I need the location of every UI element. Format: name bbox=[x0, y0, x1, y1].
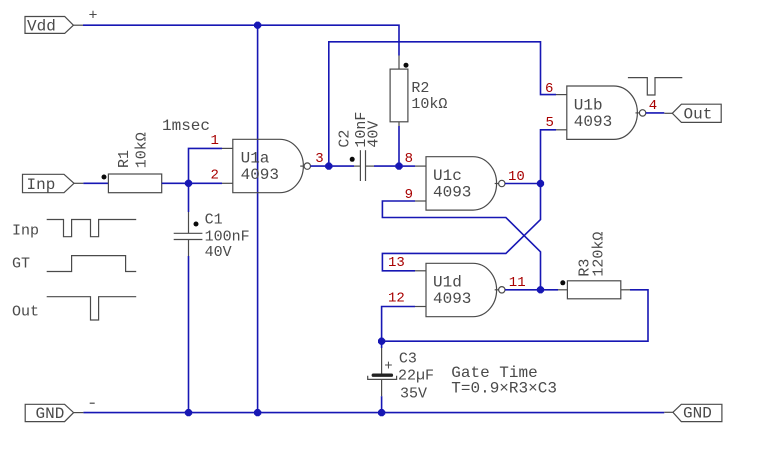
minus sign near GND bbox=[90, 402, 95, 404]
resistor R3 bbox=[558, 232, 630, 299]
svg-text:U1a: U1a bbox=[241, 150, 270, 168]
svg-text:6: 6 bbox=[545, 81, 553, 97]
wire node11 to R3 bbox=[541, 289, 559, 291]
node junction 3 bbox=[325, 163, 332, 170]
resistor R2 bbox=[390, 56, 447, 127]
flag Out bbox=[664, 104, 721, 123]
waveform Inp bbox=[47, 220, 137, 237]
pin-1 dot of R3 bbox=[560, 280, 565, 285]
svg-text:GND: GND bbox=[683, 405, 712, 423]
svg-text:10kΩ: 10kΩ bbox=[411, 96, 447, 113]
pulse icon above Out bbox=[628, 78, 682, 95]
waveform Out bbox=[47, 297, 137, 320]
svg-text:U1b: U1b bbox=[574, 96, 603, 114]
node junction pin12/C3 bbox=[378, 338, 385, 345]
svg-text:GT: GT bbox=[12, 256, 30, 273]
node junction 11 bbox=[537, 286, 544, 293]
wire node down to C1 bbox=[188, 183, 190, 212]
wire GND rail bbox=[83, 412, 664, 414]
op-amp U1b (NAND gate 4093) bbox=[556, 86, 646, 139]
flag GND left bbox=[25, 404, 83, 423]
svg-text:Out: Out bbox=[684, 106, 713, 124]
svg-text:13: 13 bbox=[388, 255, 405, 271]
wire node3 to C2 bbox=[329, 165, 354, 167]
svg-text:1: 1 bbox=[211, 133, 219, 149]
flag Vdd bbox=[25, 17, 83, 36]
wire U1d pin12 bbox=[382, 307, 415, 342]
svg-text:22µF: 22µF bbox=[398, 368, 434, 385]
svg-text:Inp: Inp bbox=[12, 223, 39, 240]
resistor R1 bbox=[108, 132, 161, 192]
svg-text:U1d: U1d bbox=[433, 274, 462, 292]
svg-text:4093: 4093 bbox=[433, 184, 471, 202]
capacitor C3 bbox=[368, 348, 434, 403]
capacitor C1 bbox=[174, 212, 250, 261]
svg-text:120kΩ: 120kΩ bbox=[591, 232, 608, 277]
wire Inp to R1 bbox=[83, 182, 108, 184]
wire power line through U1a bbox=[257, 25, 259, 412]
wire node10 up to U1b pin5 bbox=[541, 130, 557, 184]
svg-text:C1: C1 bbox=[205, 212, 223, 229]
wire U1a output to node3 bbox=[311, 165, 329, 167]
svg-text:40V: 40V bbox=[365, 121, 382, 148]
svg-text:R1: R1 bbox=[116, 150, 133, 168]
wire node up to pin1 bbox=[189, 148, 223, 183]
node junction 8 bbox=[395, 163, 402, 170]
wire C1 to GND bbox=[188, 256, 190, 413]
node junction GND/C1 bbox=[185, 409, 192, 416]
svg-text:4093: 4093 bbox=[574, 113, 612, 131]
svg-text:C2: C2 bbox=[337, 130, 354, 148]
wire node to C3 bbox=[381, 341, 383, 348]
wire R3 to pin12 node bbox=[382, 290, 648, 341]
svg-text:Vdd: Vdd bbox=[27, 18, 56, 36]
node junction R1/C1/U1a bbox=[185, 180, 192, 187]
op-amp U1a (NAND gate 4093) bbox=[222, 139, 310, 192]
flag GND right bbox=[664, 404, 722, 422]
wire node10 cross to U1d pin13 bbox=[382, 184, 540, 271]
node junction Vdd/power bbox=[254, 22, 261, 29]
wire U1c output to node10 bbox=[505, 183, 541, 185]
svg-text:35V: 35V bbox=[400, 386, 427, 403]
svg-text:Out: Out bbox=[12, 304, 39, 321]
wire C3 to GND bbox=[381, 396, 383, 412]
svg-text:40V: 40V bbox=[205, 244, 232, 261]
wire node8 to U1c pin8 bbox=[399, 165, 415, 167]
capacitor C2 bbox=[337, 112, 383, 181]
wire U1d output to node11 bbox=[505, 289, 541, 291]
node junction 10 bbox=[537, 180, 544, 187]
op-amp U1c (NAND gate 4093) bbox=[415, 157, 505, 210]
svg-text:12: 12 bbox=[388, 290, 405, 306]
svg-text:+: + bbox=[89, 8, 98, 25]
svg-text:1msec: 1msec bbox=[162, 117, 210, 135]
svg-text:4: 4 bbox=[649, 98, 657, 114]
svg-text:GND: GND bbox=[36, 405, 65, 423]
waveform GT bbox=[47, 256, 137, 272]
flag Inp bbox=[23, 174, 84, 194]
wire R2 to node8 bbox=[398, 126, 400, 166]
svg-text:8: 8 bbox=[405, 151, 413, 167]
wire U1c pin9 cross to node11 bbox=[382, 201, 540, 290]
svg-text:R2: R2 bbox=[411, 80, 429, 97]
svg-text:3: 3 bbox=[315, 151, 323, 167]
svg-text:11: 11 bbox=[509, 275, 526, 291]
svg-text:2: 2 bbox=[211, 167, 219, 183]
wire R1 to node bbox=[162, 182, 222, 184]
svg-text:T=0.9×R3×C3: T=0.9×R3×C3 bbox=[451, 380, 557, 398]
wire Vdd rail bbox=[83, 25, 399, 55]
node junction GND/C3 bbox=[378, 409, 385, 416]
svg-text:Inp: Inp bbox=[27, 176, 56, 194]
svg-text:4093: 4093 bbox=[433, 290, 471, 308]
svg-text:U1c: U1c bbox=[433, 167, 462, 185]
svg-text:5: 5 bbox=[546, 115, 554, 131]
svg-text:10kΩ: 10kΩ bbox=[133, 132, 150, 168]
node junction GND/power bbox=[254, 409, 261, 416]
svg-text:+: + bbox=[384, 358, 392, 374]
svg-text:4093: 4093 bbox=[241, 166, 279, 184]
pin-1 dot of R1 bbox=[102, 175, 107, 180]
svg-text:C3: C3 bbox=[399, 350, 417, 367]
wire C2 to node8 bbox=[374, 165, 399, 167]
wire U1b output to Out bbox=[646, 112, 665, 114]
op-amp U1d (NAND gate 4093) bbox=[415, 263, 505, 316]
wire node3 feedback loop bbox=[329, 42, 556, 166]
svg-text:100nF: 100nF bbox=[205, 229, 250, 246]
